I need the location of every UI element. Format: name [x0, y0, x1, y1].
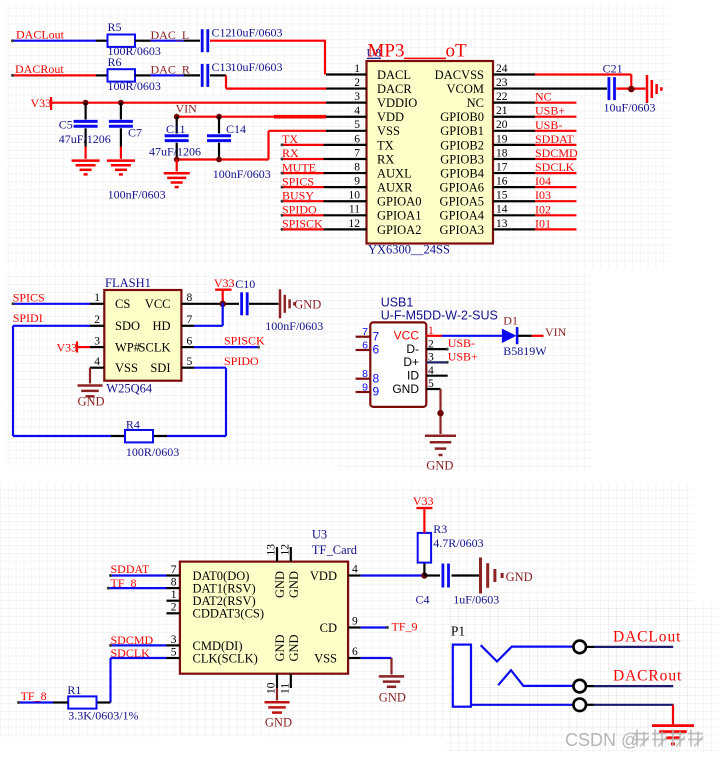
net label DACRout (p1) [613, 667, 682, 684]
svg-text:R1: R1 [67, 683, 81, 697]
svg-text:SDDAT: SDDAT [111, 562, 150, 576]
svg-text:7: 7 [362, 326, 368, 338]
ground at FLASH1 pin 4 [78, 368, 105, 409]
designator U3 [312, 528, 327, 542]
svg-text:C10: C10 [235, 277, 255, 291]
svg-text:USB-: USB- [448, 336, 475, 350]
MP3 pin 17 name GPIOB4 [440, 166, 485, 180]
wire P1 sleeve to ground [586, 705, 673, 725]
MP3 pin 8 stub [326, 172, 367, 174]
svg-text:6: 6 [352, 646, 358, 658]
net label MUTE (MP3 left) [282, 160, 316, 174]
FLASH1 pin name VSS [115, 361, 138, 375]
MP3 pin 23 name VCOM [446, 82, 484, 96]
svg-text:9: 9 [362, 381, 368, 393]
USB1 pin 2 stub [426, 348, 448, 351]
MP3 pin 6 number [354, 133, 360, 145]
junction gnd at C11 [174, 157, 180, 163]
svg-text:DACR: DACR [377, 82, 412, 96]
MP3 pin 13 name GPIOA3 [440, 223, 484, 237]
wire R6 to C13 [135, 74, 200, 76]
svg-text:RX: RX [377, 152, 394, 166]
U3 pin 8 stub [167, 587, 180, 589]
ground at P1 [652, 726, 694, 744]
MP3 pin 6 stub [326, 144, 367, 146]
part number YX6300__24SS [368, 243, 450, 257]
MP3 pin 11 stub [326, 214, 367, 216]
power port V33 at R3 [413, 494, 434, 533]
net label VIN (usb) [545, 325, 567, 339]
part name TF_Card [312, 543, 358, 557]
svg-text:5: 5 [187, 356, 193, 368]
MP3 pin 22 number [496, 91, 508, 103]
FLASH1 pin 7 number [187, 314, 193, 326]
svg-text:R6: R6 [108, 55, 122, 69]
USB1 pin 6 outside number [362, 339, 368, 351]
MP3 pin 4 stub [326, 116, 367, 118]
wire VIN rail to MP3 pin 4 [177, 116, 326, 118]
net label SPIDO (flash) [224, 354, 259, 368]
svg-text:GND: GND [273, 571, 287, 598]
svg-text:GND: GND [273, 634, 287, 661]
junction at C7 [118, 100, 124, 106]
MP3 pin 3 stub [326, 102, 367, 104]
svg-text:VCC: VCC [145, 297, 171, 311]
U3 pin 2 number [171, 602, 177, 614]
chip U3 TF_Card body [180, 562, 348, 674]
net label SDCLK (MP3 right) [535, 160, 575, 174]
svg-text:GPIOB0: GPIOB0 [440, 110, 484, 124]
svg-text:8: 8 [187, 292, 193, 304]
svg-text:VCC: VCC [394, 329, 420, 343]
wire SPIDI loop to FLASH1 pin 2 and R4 [13, 326, 125, 436]
wire NC stub [535, 102, 576, 104]
svg-text:11: 11 [279, 683, 291, 694]
net label SDCMD (tf) [111, 633, 154, 647]
MP3 pin 16 name GPIOA6 [440, 181, 484, 195]
svg-text:DACRout: DACRout [15, 62, 64, 76]
FLASH1 pin 5 number [187, 356, 193, 368]
USB1 pin 7 outside number [362, 326, 368, 338]
net label TF_8 (tf) [111, 576, 137, 590]
diode D1 [502, 313, 547, 358]
net label SDDAT (MP3 right) [535, 132, 574, 146]
FLASH1 pin 6 stub [181, 346, 194, 348]
title MP3__oT [368, 41, 468, 62]
wire SPIDO to MP3 [281, 214, 327, 217]
svg-text:W25Q64: W25Q64 [106, 381, 153, 395]
svg-text:GPIOA4: GPIOA4 [440, 209, 485, 223]
net label TF_8 (r1) [21, 689, 47, 703]
MP3 pin 12 name GPIOA2 [377, 223, 421, 237]
MP3 pin 2 number [354, 77, 360, 89]
net label I04 (MP3 right) [535, 174, 551, 188]
U3 pin 1 stub [167, 600, 180, 602]
wire FLASH1 pin 7 up to junction [194, 303, 223, 326]
svg-text:DACRout: DACRout [613, 667, 682, 684]
MP3 pin 15 number [496, 190, 508, 202]
svg-text:U3: U3 [312, 528, 327, 542]
USB1 pin 4 number [428, 365, 434, 377]
wire C21 to ground [616, 87, 645, 89]
MP3 pin 1 number [354, 63, 360, 75]
capacitor C12 [202, 26, 282, 53]
U3 pin 6 stub [348, 646, 361, 658]
wire TF_8 to R1 [17, 701, 53, 704]
P1 sleeve wire [471, 704, 573, 706]
svg-text:100R/0603: 100R/0603 [126, 445, 179, 459]
MP3 pin 22 name NC [467, 96, 484, 110]
junction at R3 C4 [421, 572, 427, 578]
wire USB1 pin 5 to ground [439, 389, 441, 434]
svg-text:TX: TX [377, 138, 394, 152]
U3 pin name DAT2(RSV) [193, 594, 256, 608]
svg-text:8: 8 [373, 371, 380, 385]
MP3 pin 3 name VDDIO [377, 96, 417, 110]
MP3 pin 21 stub [493, 116, 535, 118]
svg-text:24: 24 [496, 63, 508, 75]
capacitor C5 [59, 103, 111, 159]
wire U3 pin 4 to junction [361, 574, 425, 576]
MP3 pin 8 name AUXL [377, 166, 412, 180]
svg-text:100nF/0603: 100nF/0603 [213, 167, 271, 181]
net label RX (MP3 left) [282, 146, 299, 160]
USB1 pin 3 number [428, 352, 434, 364]
svg-text:14: 14 [496, 204, 508, 216]
U3 pin 11 stub [279, 674, 291, 694]
svg-text:VSS: VSS [314, 651, 337, 665]
wire SPICS to MP3 [281, 186, 327, 189]
svg-text:ID: ID [407, 369, 419, 383]
designator U8 [367, 46, 382, 60]
svg-text:GPIOA6: GPIOA6 [440, 181, 484, 195]
svg-text:1: 1 [171, 589, 177, 601]
MP3 pin 19 stub [493, 144, 535, 146]
svg-text:TF_8: TF_8 [21, 689, 47, 703]
MP3 pin 14 number [496, 204, 508, 216]
wire C4 to gnd [452, 574, 480, 576]
svg-text:12: 12 [279, 544, 291, 556]
MP3 pin 16 stub [493, 186, 535, 188]
MP3 pin 19 name GPIOB2 [440, 138, 484, 152]
net label SPICS (flash) [13, 290, 45, 304]
svg-text:DACL: DACL [377, 68, 411, 82]
svg-text:P1: P1 [451, 623, 465, 638]
MP3 pin 24 number [496, 63, 508, 75]
USB1 pin 5 number [428, 378, 434, 390]
svg-text:GPIOA0: GPIOA0 [377, 195, 421, 209]
USB1 pin name ID [407, 369, 419, 383]
svg-text:3.3K/0603/1%: 3.3K/0603/1% [68, 708, 138, 722]
MP3 pin 2 stub [326, 87, 367, 89]
U3 pin 9 stub [348, 616, 361, 628]
junction gnd at C14 [216, 157, 222, 163]
FLASH1 pin 2 stub [90, 325, 104, 327]
P1 ring terminal circle [573, 680, 586, 693]
svg-text:AUXR: AUXR [377, 181, 413, 195]
net label SDCMD (MP3 right) [535, 146, 578, 160]
resistor R5 [108, 20, 161, 58]
MP3 pin 11 name GPIOA1 [377, 209, 421, 223]
svg-text:GND: GND [294, 298, 321, 312]
USB1 pin 6 inside number [373, 343, 380, 357]
U3 pin name GND 10 [273, 634, 287, 661]
svg-text:GND: GND [379, 690, 406, 704]
USB1 pin name GND [392, 382, 419, 396]
U3 pin name CD [320, 621, 337, 635]
svg-text:100R/0603: 100R/0603 [108, 79, 161, 93]
svg-text:C7: C7 [128, 126, 142, 140]
junction USB gnd [437, 410, 443, 416]
svg-text:4: 4 [94, 356, 100, 368]
P1 tip terminal circle [573, 641, 586, 654]
svg-text:GND: GND [392, 382, 419, 396]
net label I01 (MP3 right) [535, 216, 551, 230]
USB1 pin 7 inside number [373, 329, 380, 343]
svg-text:CDDAT3(CS): CDDAT3(CS) [193, 607, 265, 621]
svg-text:C14: C14 [226, 122, 246, 136]
wire P1 tip DACLout [586, 646, 673, 648]
FLASH1 pin name WP# [115, 341, 141, 355]
svg-text:V33: V33 [214, 276, 235, 290]
MP3 pin 10 number [349, 190, 361, 202]
resistor R6 [108, 55, 161, 93]
USB1 pin 9 outside number [362, 381, 368, 393]
svg-text:VSS: VSS [377, 124, 400, 138]
U3 pin 3 number [171, 634, 177, 646]
MP3 pin 12 number [349, 218, 361, 230]
svg-text:DACLout: DACLout [613, 629, 681, 646]
svg-text:8: 8 [362, 368, 368, 380]
MP3 pin 9 number [354, 176, 360, 188]
svg-text:CD: CD [320, 621, 337, 635]
net label TX (MP3 left) [282, 132, 298, 146]
USB1 pin 9 stub [356, 391, 371, 393]
svg-text:7: 7 [354, 147, 360, 159]
MP3 pin 15 name GPIOA5 [440, 195, 484, 209]
MP3 pin 8 number [354, 161, 360, 173]
FLASH1 pin 5 stub [181, 367, 194, 369]
net label DAC_L [151, 28, 190, 42]
FLASH1 pin name SCLK [139, 341, 171, 355]
net label I03 (MP3 right) [535, 188, 551, 202]
svg-text:DAC_R: DAC_R [151, 62, 190, 76]
capacitor C4 [416, 564, 500, 607]
P1 ring contact [498, 670, 573, 686]
MP3 pin 16 number [496, 176, 508, 188]
net label VIN top [176, 101, 198, 115]
wire SPICS to FLASH1 pin 1 [12, 302, 91, 305]
svg-text:C4: C4 [416, 592, 430, 606]
gnd rail below C11 C14 to MP3 pin 5 [177, 131, 326, 160]
USB1 pin 4 stub [426, 375, 447, 377]
svg-text:B5819W: B5819W [503, 344, 547, 358]
MP3 pin 11 number [349, 204, 360, 216]
U3 pin 13 stub [265, 544, 277, 562]
wire C13 to MP3 pin 2 [210, 75, 326, 88]
MP3 pin 13 number [496, 218, 508, 230]
U3 pin 5 number [171, 646, 177, 658]
MP3 pin 4 name VDD [377, 110, 404, 124]
net label SPIDI [13, 311, 43, 325]
FLASH1 pin 4 stub [90, 367, 104, 369]
net label DACLout (p1) [613, 629, 681, 646]
connector USB1 body [370, 322, 426, 407]
junction at FLASH1 pin 8 [220, 301, 226, 307]
U3 pin 10 stub [265, 674, 277, 694]
net label SPISCK (flash) [224, 334, 265, 348]
svg-text:SDI: SDI [150, 361, 170, 375]
svg-text:13: 13 [265, 544, 277, 556]
U3 pin name GND 12 [287, 571, 301, 598]
svg-text:4: 4 [354, 105, 360, 117]
P1 tip contact [481, 645, 574, 661]
FLASH1 pin name CS [115, 297, 130, 311]
svg-text:GPIOB4: GPIOB4 [440, 166, 485, 180]
FLASH1 pin name VCC [145, 297, 171, 311]
MP3 pin 12 stub [326, 228, 367, 230]
FLASH1 pin name SDI [150, 361, 170, 375]
connector P1 jack body [453, 645, 471, 707]
U3 pin name VDD [310, 569, 337, 583]
USB1 pin name D+ [403, 355, 419, 369]
svg-text:oT: oT [446, 41, 468, 62]
wire SDCMD to U3 [109, 644, 167, 647]
svg-text:10: 10 [349, 190, 361, 202]
svg-text:2: 2 [94, 314, 100, 326]
svg-text:7: 7 [187, 314, 193, 326]
net label TF_9 [392, 619, 418, 633]
U3 pin 3 stub [167, 644, 180, 646]
MP3 pin 18 number [496, 147, 508, 159]
svg-text:2: 2 [354, 77, 360, 89]
svg-text:VSS: VSS [115, 361, 138, 375]
svg-text:100nF/0603: 100nF/0603 [265, 319, 323, 333]
MP3 pin 9 stub [326, 186, 367, 188]
U3 pin 2 stub [167, 612, 180, 614]
svg-text:D+: D+ [403, 355, 419, 369]
power port V33 at FLASH1 pin 3 [57, 340, 91, 354]
svg-text:4.7R/0603: 4.7R/0603 [433, 536, 483, 550]
svg-text:21: 21 [496, 105, 508, 117]
net label SPISCK (MP3 left) [282, 217, 323, 231]
U3 pin 8 number [171, 577, 177, 589]
U3 pin 7 number [171, 564, 177, 576]
MP3 pin 15 stub [493, 200, 535, 202]
svg-text:7: 7 [373, 329, 380, 343]
svg-text:6: 6 [354, 133, 360, 145]
P1 sleeve terminal circle [573, 699, 586, 712]
ground right of C21 [647, 75, 661, 103]
svg-text:USB1: USB1 [381, 296, 414, 310]
MP3 pin 21 name GPIOB0 [440, 110, 484, 124]
svg-text:SPIDO: SPIDO [224, 354, 259, 368]
net label SPIDO (MP3 left) [282, 203, 317, 217]
svg-text:USB+: USB+ [448, 349, 478, 363]
net label SDCLK (tf) [111, 646, 151, 660]
resistor R4 [125, 418, 179, 459]
MP3 pin 5 number [354, 119, 360, 131]
svg-text:TF_Card: TF_Card [312, 543, 358, 557]
ground below U3 pin 10 [265, 688, 292, 730]
svg-text:9: 9 [354, 176, 360, 188]
connector P1 designator [451, 623, 465, 638]
MP3 pin 6 name TX [377, 138, 394, 152]
MP3 pin 17 stub [493, 172, 535, 174]
U3 pin name DAT0(DO) [193, 569, 250, 583]
svg-text:SDO: SDO [115, 319, 140, 333]
svg-text:VDD: VDD [310, 569, 337, 583]
MP3 pin 21 number [496, 105, 508, 117]
U3 pin 12 stub [279, 544, 291, 562]
net label USB+ (usb) [448, 349, 478, 363]
MP3 pin 10 name GPIOA0 [377, 195, 421, 209]
wire C10 to gnd [249, 303, 279, 305]
U3 pin name GND 13 [273, 571, 287, 598]
svg-text:GPIOB1: GPIOB1 [440, 124, 484, 138]
svg-text:10: 10 [265, 682, 277, 694]
svg-text:15: 15 [496, 190, 508, 202]
wire USB1 pin1 to D1 [442, 335, 502, 337]
svg-text:R5: R5 [108, 20, 122, 34]
svg-text:CLK(SCLK): CLK(SCLK) [193, 651, 258, 665]
U3 pin name CMD(DI) [193, 639, 243, 653]
MP3 pin 4 number [354, 105, 360, 117]
svg-text:WP#: WP# [115, 341, 141, 355]
svg-text:9: 9 [352, 616, 358, 628]
USB1 pin 1 number [428, 325, 434, 337]
USB1 pin 9 inside number [373, 385, 380, 399]
capacitor C13 [202, 60, 282, 87]
svg-text:5: 5 [171, 646, 177, 658]
USB1 pin 8 stub [356, 378, 371, 380]
MP3 pin 24 name DACVSS [435, 68, 484, 82]
resistor R3 [418, 522, 484, 576]
net label BUSY (MP3 left) [282, 188, 314, 202]
wire I01 stub [535, 228, 576, 230]
svg-text:VCOM: VCOM [446, 82, 484, 96]
svg-text:2: 2 [171, 602, 177, 614]
MP3 pin 17 number [496, 161, 508, 173]
svg-text:D-: D- [406, 342, 419, 356]
svg-text:FLASH1: FLASH1 [105, 276, 151, 290]
MP3 pin 18 name GPIOB3 [440, 152, 484, 166]
USB1 pin 8 inside number [373, 371, 380, 385]
svg-text:SPISCK: SPISCK [224, 334, 265, 348]
svg-text:8: 8 [171, 577, 177, 589]
MP3 pin 14 stub [493, 214, 535, 216]
svg-text:GND: GND [287, 634, 301, 661]
svg-text:GPIOB3: GPIOB3 [440, 152, 484, 166]
USB1 pin 7 stub [356, 336, 371, 338]
svg-text:MP3: MP3 [368, 41, 405, 62]
MP3 pin 20 name GPIOB1 [440, 124, 484, 138]
svg-text:U-F-M5DD-W-2-SUS: U-F-M5DD-W-2-SUS [381, 309, 498, 323]
MP3 pin 3 number [354, 91, 360, 103]
wire C12 to MP3 pin 1 [210, 41, 326, 75]
svg-text:R4: R4 [126, 418, 140, 432]
svg-text:3: 3 [171, 634, 177, 646]
MP3 pin 14 name GPIOA4 [440, 209, 485, 223]
net label DAC_R [151, 62, 190, 76]
svg-text:V33: V33 [31, 96, 52, 110]
MP3 pin 20 number [496, 119, 508, 131]
capacitor C7 [108, 103, 166, 202]
part number U-F-M5DD-W-2-SUS [381, 309, 498, 323]
transistor-free FLASH1 chip body [104, 290, 181, 381]
svg-text:C11: C11 [166, 122, 186, 136]
net label I02 (MP3 right) [535, 202, 551, 216]
